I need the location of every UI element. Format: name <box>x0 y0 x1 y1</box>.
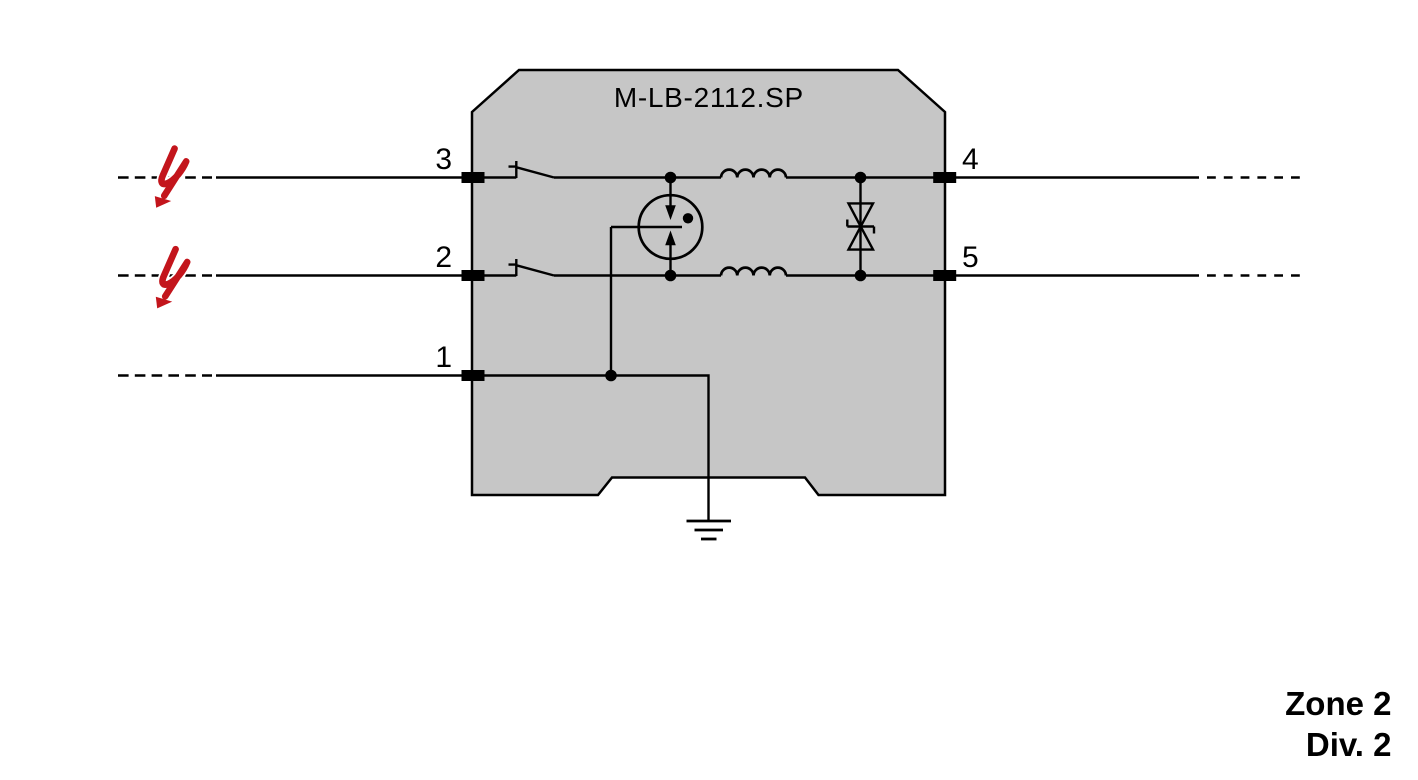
svg-text:2: 2 <box>435 241 452 274</box>
svg-text:Div. 2: Div. 2 <box>1306 726 1392 763</box>
svg-text:5: 5 <box>962 241 979 274</box>
svg-text:1: 1 <box>435 341 452 374</box>
svg-text:3: 3 <box>435 143 452 176</box>
svg-text:4: 4 <box>962 143 979 176</box>
svg-text:M-LB-2112.SP: M-LB-2112.SP <box>614 82 803 113</box>
svg-text:Zone 2: Zone 2 <box>1285 685 1391 722</box>
